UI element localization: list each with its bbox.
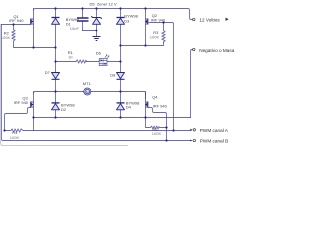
wire negativo terminal: [191, 50, 193, 118]
wire zener D5 leads: [96, 9, 98, 31]
diode D5 zener: [91, 16, 101, 18]
wire R1 branch: [56, 61, 77, 63]
diode D7: [52, 78, 60, 80]
wire Q2 source line: [121, 42, 164, 46]
wire node A column upper: [55, 9, 57, 73]
wire Q2 drain/source vertical: [145, 9, 147, 46]
svg-text:10nF: 10nF: [70, 26, 80, 31]
transistor Q1: [31, 19, 34, 25]
wire node B column: [120, 9, 122, 118]
wire top +12V rail: [34, 9, 193, 20]
wire Q2 gate line: [149, 23, 174, 131]
wire Q1 gate line: [2, 24, 31, 26]
diode D2: [52, 102, 60, 104]
wire motor line node B: [91, 92, 145, 100]
svg-text:D7: D7: [45, 70, 51, 75]
svg-text:100K: 100K: [1, 35, 11, 40]
svg-text:D5 Zener 12 V: D5 Zener 12 V: [90, 1, 117, 6]
svg-text:100K: 100K: [10, 135, 20, 140]
terminal 12V: [190, 18, 229, 142]
wire Q3 vertical: [33, 92, 35, 118]
svg-text:100K: 100K: [152, 131, 162, 136]
svg-text:12 Voltios: 12 Voltios: [199, 18, 220, 23]
transistor Q4: [145, 102, 148, 108]
svg-text:D6: D6: [96, 51, 102, 56]
diode D1: [52, 17, 60, 19]
LED D6: [99, 54, 109, 65]
motor MT1: [84, 88, 91, 95]
transistor Q2: [145, 19, 148, 25]
wire R4 right lead to ground rail: [33, 118, 35, 131]
arrow after 12 voltios: [226, 18, 229, 21]
diode D3: [117, 17, 125, 19]
wire Q1 drain/source vertical: [33, 9, 35, 48]
wire ground rail: [34, 117, 191, 119]
svg-text:Q4: Q4: [152, 94, 158, 99]
terminal negativo: [193, 48, 195, 50]
diode D4: [117, 102, 125, 104]
resistor R3: [162, 22, 165, 42]
svg-text:D2: D2: [61, 107, 67, 112]
svg-text:IRF 940: IRF 940: [9, 18, 24, 23]
wire motor line node A: [34, 92, 84, 94]
svg-text:M: M: [86, 90, 89, 94]
transistor Q3: [31, 102, 34, 108]
wire Q4 vertical: [145, 92, 147, 118]
resistor R4 + PWM canal A line: [5, 129, 192, 132]
resistor R5: [146, 118, 167, 129]
svg-text:MT1: MT1: [83, 81, 92, 86]
wire capacitor leads: [82, 9, 84, 31]
wire left edge vertical PWM B: [2, 25, 192, 141]
wire R1 to LED: [87, 61, 100, 63]
wire Q1 source to node A: [14, 47, 56, 49]
svg-text:D4: D4: [126, 105, 132, 110]
svg-text:Negativo o Masa: Negativo o Masa: [199, 48, 235, 53]
wire Q4 gate path: [148, 108, 167, 141]
svg-text:D3: D3: [124, 18, 130, 23]
svg-text:D8: D8: [110, 72, 116, 77]
terminal PWM A: [190, 129, 192, 131]
svg-text:IRF 940: IRF 940: [151, 17, 166, 22]
ground symbol: [93, 37, 101, 41]
diode D8: [117, 78, 125, 80]
wire ground lead: [96, 31, 98, 37]
wire node A column lower: [55, 79, 57, 117]
capacitor C1 plates: [77, 18, 89, 21]
svg-text:1K: 1K: [68, 54, 73, 59]
terminal PWM B: [190, 140, 192, 142]
svg-text:100K: 100K: [150, 35, 160, 40]
wire LED to node B column: [107, 61, 120, 63]
svg-text:PWM canal A: PWM canal A: [200, 128, 229, 133]
resistor R1: [76, 60, 87, 63]
svg-text:IRF 940: IRF 940: [14, 100, 29, 105]
wire Q3 gate path: [5, 108, 31, 131]
svg-text:PWM canal B: PWM canal B: [200, 139, 228, 144]
resistor R2: [12, 25, 15, 48]
wire cap to zener/ground junction: [83, 30, 97, 32]
frame gray partial border: [1, 24, 128, 146]
svg-text:IRF 940: IRF 940: [153, 103, 168, 108]
